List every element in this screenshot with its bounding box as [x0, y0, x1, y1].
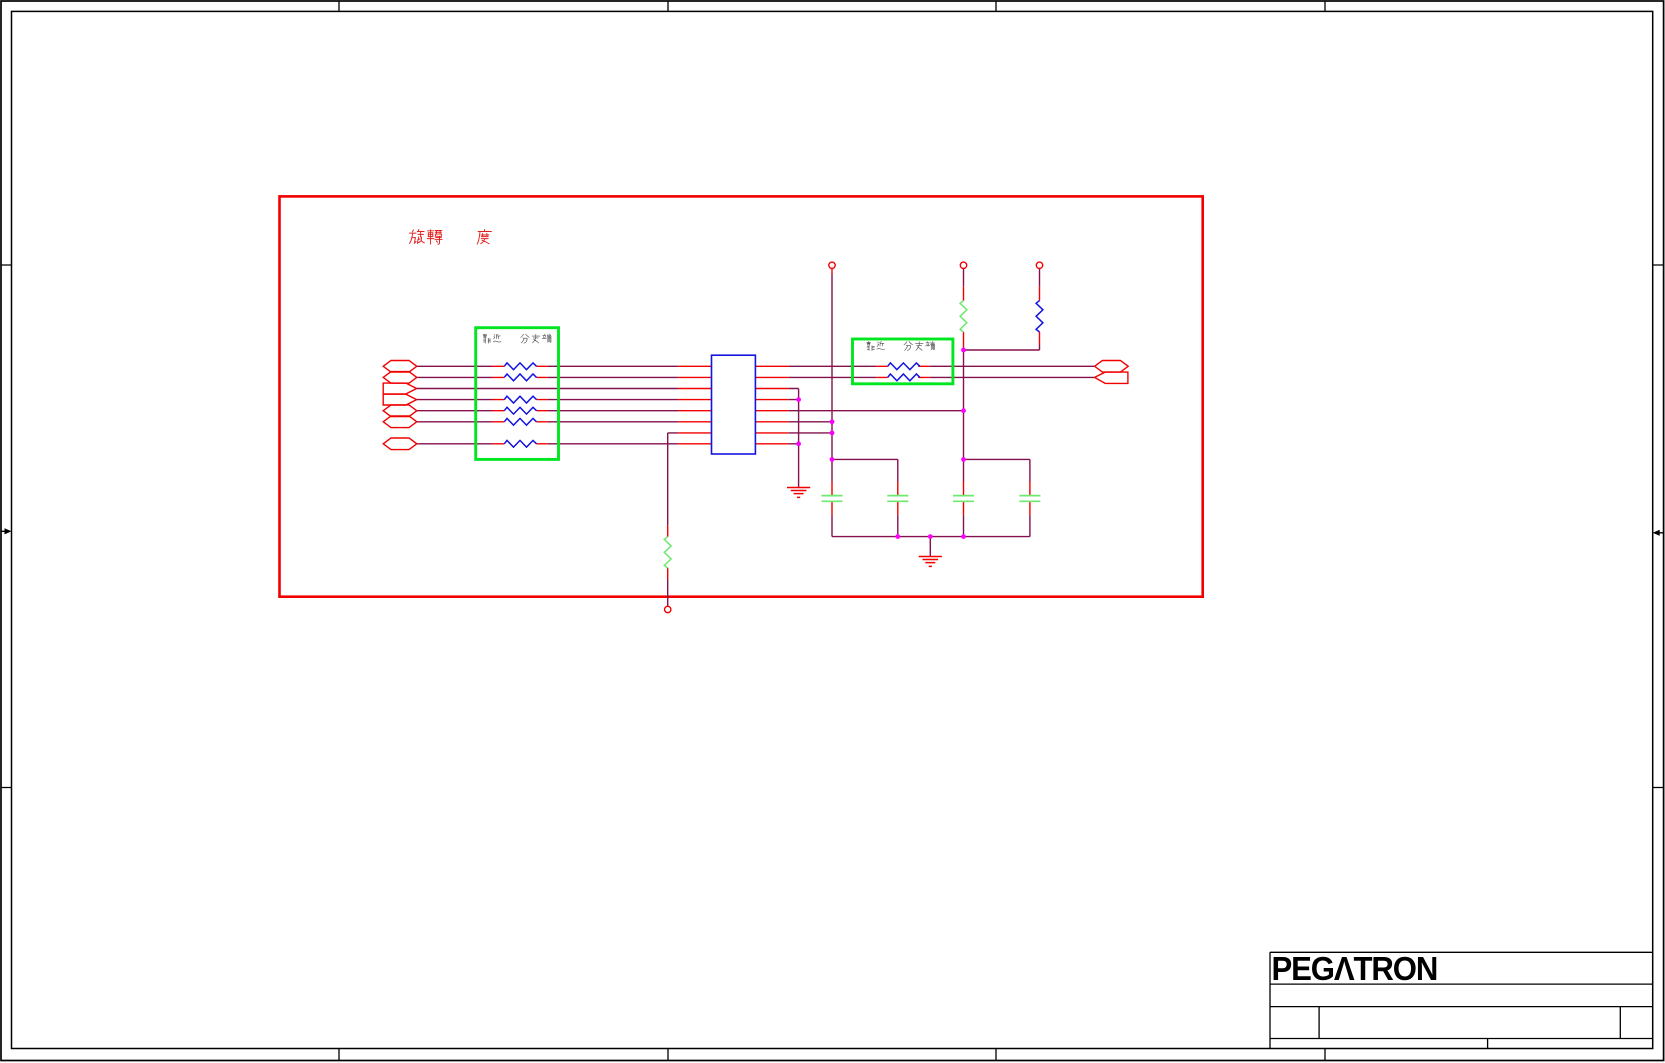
svg-text:PEGΛTRON: PEGΛTRON — [1272, 951, 1438, 988]
